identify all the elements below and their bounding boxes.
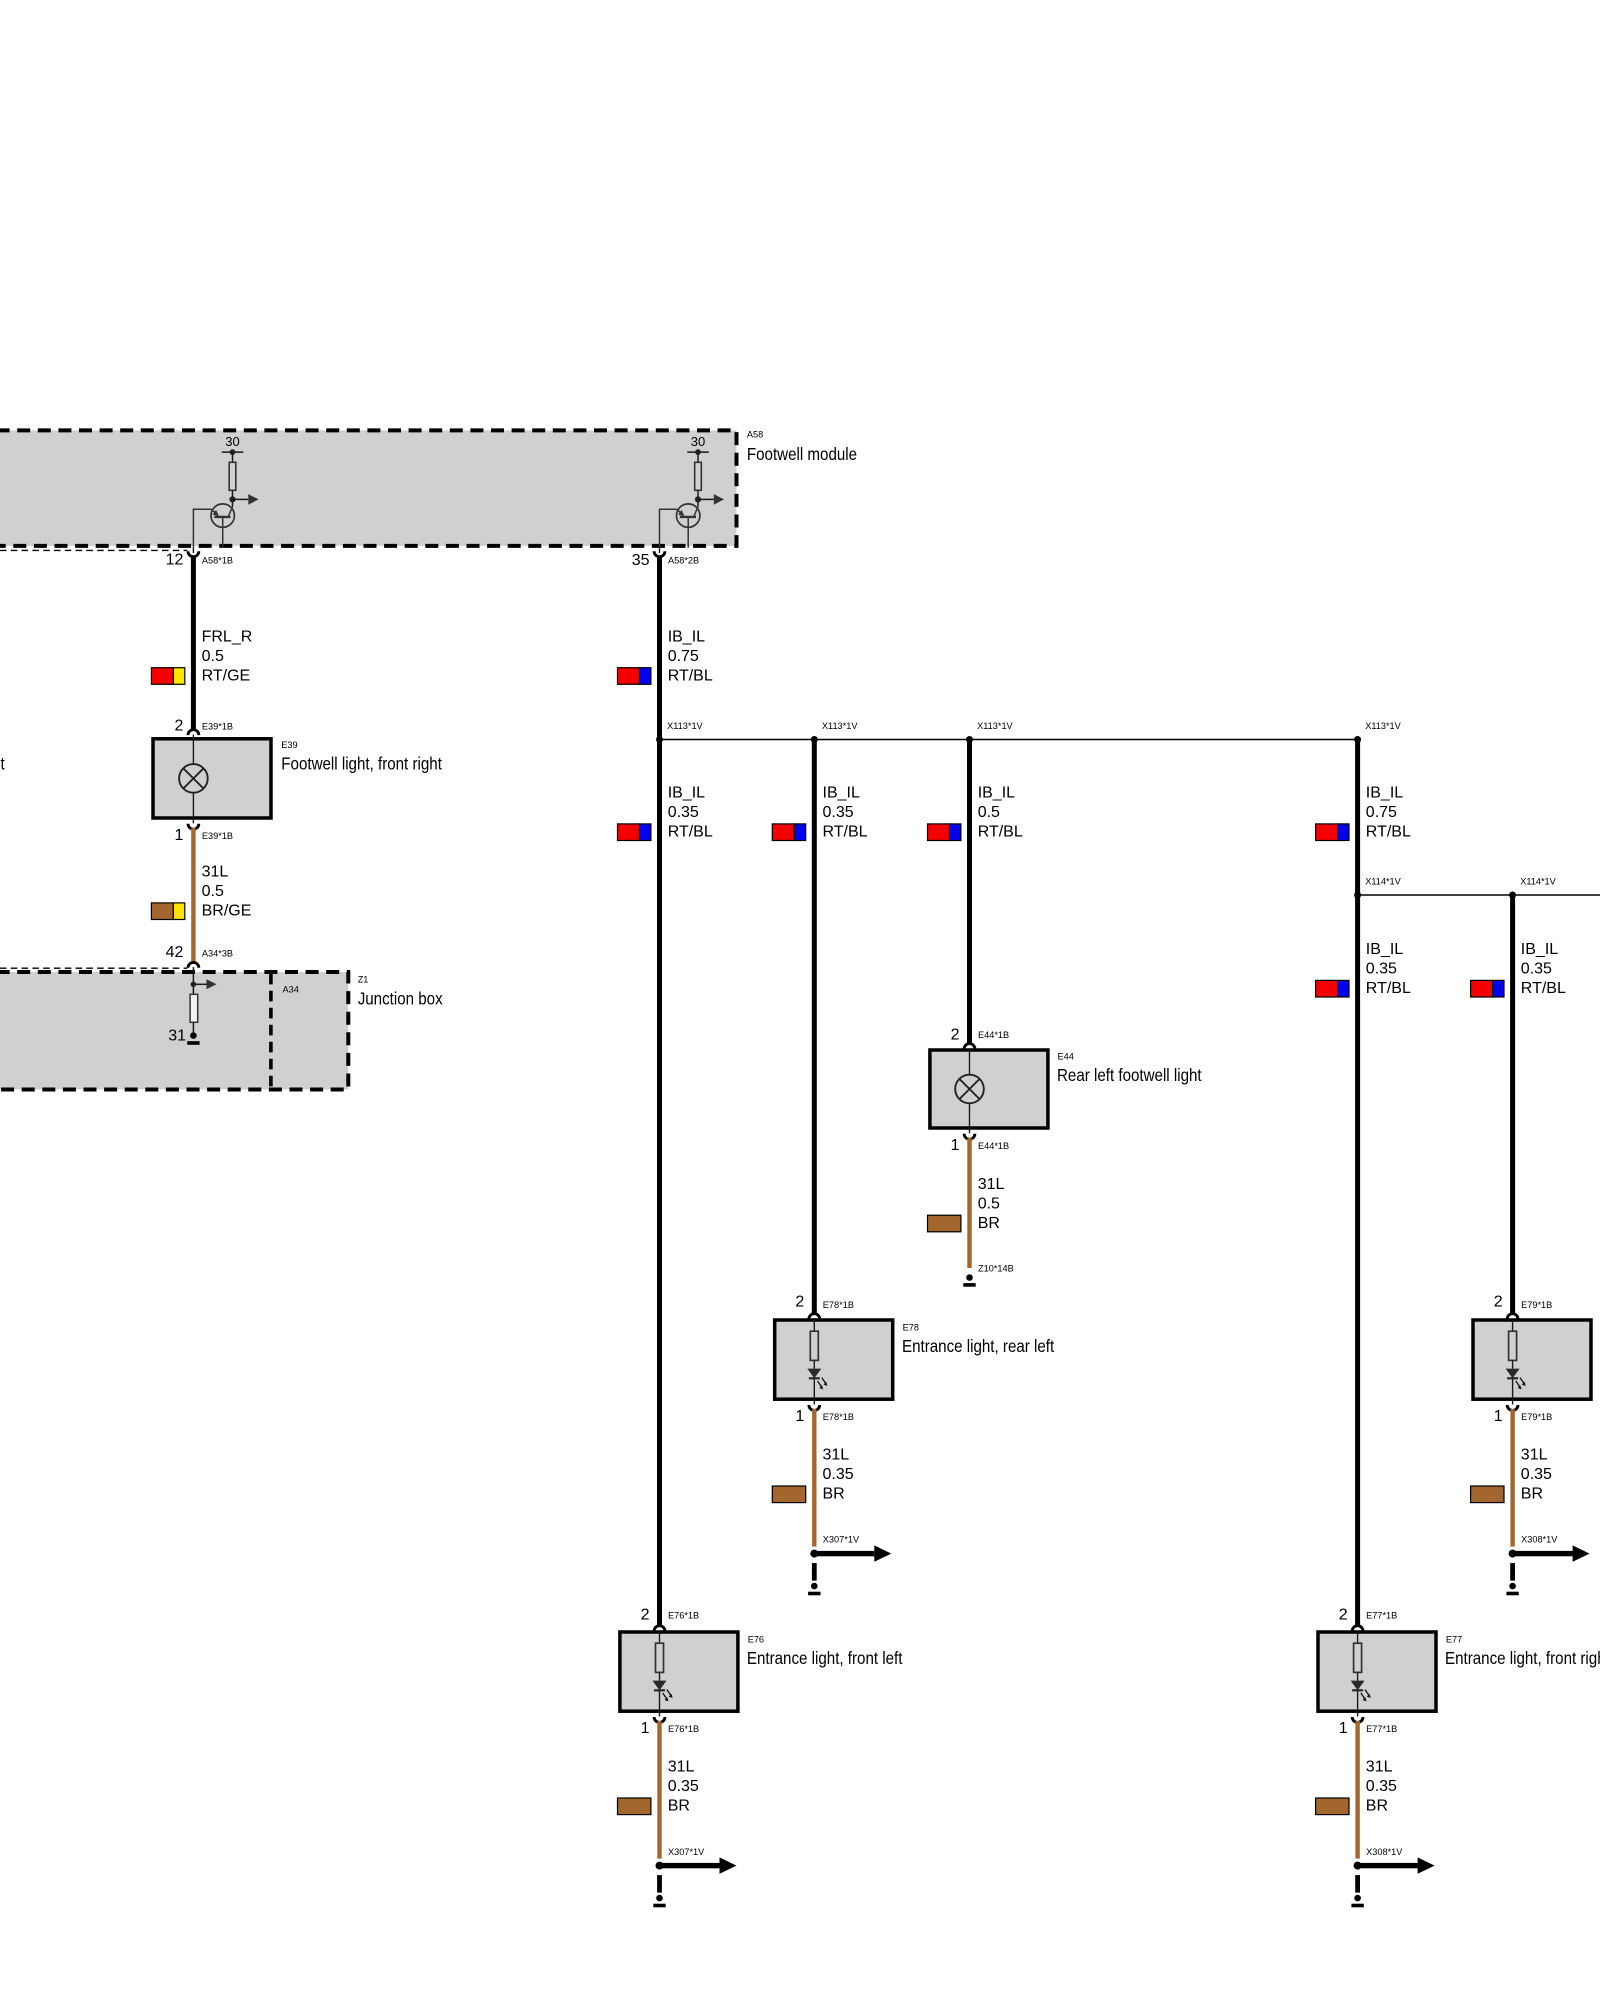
svg-text:X308*1V: X308*1V: [1521, 1535, 1558, 1545]
svg-text:30: 30: [225, 434, 239, 449]
svg-text:IB_IL: IB_IL: [668, 785, 705, 802]
svg-text:Z10*14B: Z10*14B: [978, 1263, 1014, 1273]
svg-text:IB_IL: IB_IL: [823, 785, 860, 802]
svg-text:2: 2: [641, 1607, 650, 1624]
svg-text:E77: E77: [1446, 1634, 1462, 1644]
svg-text:Entrance light, front right: Entrance light, front right: [1445, 1649, 1600, 1668]
svg-text:0.35: 0.35: [1521, 1466, 1552, 1483]
svg-text:0.5: 0.5: [202, 883, 224, 900]
svg-text:30: 30: [691, 434, 705, 449]
svg-text:BR: BR: [978, 1215, 1000, 1232]
svg-text:X308*1V: X308*1V: [1366, 1847, 1403, 1857]
svg-text:E39*1B: E39*1B: [202, 721, 233, 731]
svg-text:A34: A34: [283, 985, 299, 995]
svg-text:E79*1B: E79*1B: [1521, 1412, 1552, 1422]
svg-text:X114*1V: X114*1V: [1365, 877, 1401, 887]
svg-text:1: 1: [641, 1720, 650, 1737]
svg-text:E77*1B: E77*1B: [1366, 1724, 1397, 1734]
svg-text:BR: BR: [1521, 1486, 1543, 1503]
svg-text:0.5: 0.5: [978, 804, 1000, 821]
svg-text:RT/BL: RT/BL: [1366, 980, 1411, 997]
svg-text:Z1: Z1: [358, 975, 369, 985]
svg-text:1: 1: [1339, 1720, 1348, 1737]
svg-text:0.5: 0.5: [978, 1195, 1000, 1212]
svg-text:E78: E78: [903, 1322, 919, 1332]
svg-text:A58*2B: A58*2B: [668, 555, 699, 565]
svg-text:RT/BL: RT/BL: [823, 824, 868, 841]
svg-text:E78*1B: E78*1B: [823, 1300, 854, 1310]
svg-text:X307*1V: X307*1V: [823, 1535, 860, 1545]
svg-text:2: 2: [951, 1026, 960, 1043]
svg-text:RT/BL: RT/BL: [1521, 980, 1566, 997]
svg-text:0.35: 0.35: [1366, 1778, 1397, 1795]
svg-text:A58*1B: A58*1B: [202, 555, 233, 565]
svg-text:1: 1: [951, 1137, 960, 1154]
svg-text:E78*1B: E78*1B: [823, 1412, 854, 1422]
svg-text:31L: 31L: [202, 864, 229, 881]
svg-text:X114*1V: X114*1V: [1520, 877, 1556, 887]
svg-text:IB_IL: IB_IL: [1366, 941, 1403, 958]
svg-text:BR: BR: [823, 1486, 845, 1503]
svg-text:E39: E39: [281, 740, 297, 750]
svg-text:1: 1: [1494, 1408, 1503, 1425]
svg-text:0.35: 0.35: [668, 1778, 699, 1795]
svg-text:IB_IL: IB_IL: [668, 628, 705, 645]
svg-text:X113*1V: X113*1V: [1365, 721, 1401, 731]
svg-text:E44*1B: E44*1B: [978, 1030, 1009, 1040]
svg-text:0.75: 0.75: [668, 648, 699, 665]
svg-text:RT/BL: RT/BL: [668, 824, 713, 841]
svg-text:RT/BL: RT/BL: [1366, 824, 1411, 841]
svg-text:0.35: 0.35: [1366, 961, 1397, 978]
svg-text:31L: 31L: [823, 1447, 850, 1464]
svg-text:2: 2: [795, 1293, 804, 1310]
svg-text:31L: 31L: [1521, 1447, 1548, 1464]
svg-text:RT/BL: RT/BL: [978, 824, 1023, 841]
svg-text:Rear left footwell light: Rear left footwell light: [1057, 1066, 1202, 1085]
svg-text:Footwell light, front right: Footwell light, front right: [281, 754, 442, 773]
svg-text:31L: 31L: [1366, 1759, 1393, 1776]
svg-text:Entrance light, front left: Entrance light, front left: [747, 1649, 903, 1668]
svg-text:X113*1V: X113*1V: [977, 721, 1013, 731]
svg-text:35: 35: [632, 552, 650, 569]
svg-text:0.35: 0.35: [1521, 961, 1552, 978]
svg-text:IB_IL: IB_IL: [978, 785, 1015, 802]
svg-text:A34*3B: A34*3B: [202, 948, 233, 958]
svg-text:0.5: 0.5: [202, 648, 224, 665]
svg-text:0.75: 0.75: [1366, 804, 1397, 821]
svg-text:A58: A58: [747, 430, 763, 440]
svg-text:RT/BL: RT/BL: [668, 667, 713, 684]
svg-text:RT/GE: RT/GE: [202, 667, 251, 684]
svg-text:t: t: [0, 754, 5, 773]
svg-text:42: 42: [166, 944, 184, 961]
svg-text:E76*1B: E76*1B: [668, 1611, 699, 1621]
svg-text:E76*1B: E76*1B: [668, 1724, 699, 1734]
svg-text:E77*1B: E77*1B: [1366, 1611, 1397, 1621]
svg-text:31L: 31L: [978, 1176, 1005, 1193]
svg-text:IB_IL: IB_IL: [1366, 785, 1403, 802]
svg-text:12: 12: [166, 552, 184, 569]
svg-text:E44*1B: E44*1B: [978, 1141, 1009, 1151]
svg-text:E76: E76: [748, 1634, 764, 1644]
svg-text:0.35: 0.35: [668, 804, 699, 821]
svg-text:31L: 31L: [668, 1759, 695, 1776]
svg-text:BR: BR: [1366, 1798, 1388, 1815]
svg-text:E44: E44: [1058, 1051, 1074, 1061]
svg-text:X113*1V: X113*1V: [667, 721, 703, 731]
svg-text:0.35: 0.35: [823, 804, 854, 821]
svg-text:FRL_R: FRL_R: [202, 628, 253, 645]
svg-text:E79*1B: E79*1B: [1521, 1300, 1552, 1310]
svg-text:2: 2: [174, 717, 183, 734]
svg-text:BR/GE: BR/GE: [202, 903, 252, 920]
svg-text:X113*1V: X113*1V: [822, 721, 858, 731]
svg-text:1: 1: [795, 1408, 804, 1425]
svg-text:X307*1V: X307*1V: [668, 1847, 705, 1857]
svg-text:BR: BR: [668, 1798, 690, 1815]
svg-text:Entrance light, rear left: Entrance light, rear left: [902, 1337, 1055, 1356]
svg-text:0.35: 0.35: [823, 1466, 854, 1483]
svg-text:31: 31: [168, 1028, 186, 1045]
svg-text:2: 2: [1494, 1293, 1503, 1310]
svg-text:Junction box: Junction box: [358, 989, 444, 1008]
svg-text:1: 1: [174, 827, 183, 844]
svg-text:IB_IL: IB_IL: [1521, 941, 1558, 958]
svg-text:Footwell module: Footwell module: [747, 445, 857, 464]
svg-text:E39*1B: E39*1B: [202, 831, 233, 841]
svg-text:2: 2: [1339, 1607, 1348, 1624]
